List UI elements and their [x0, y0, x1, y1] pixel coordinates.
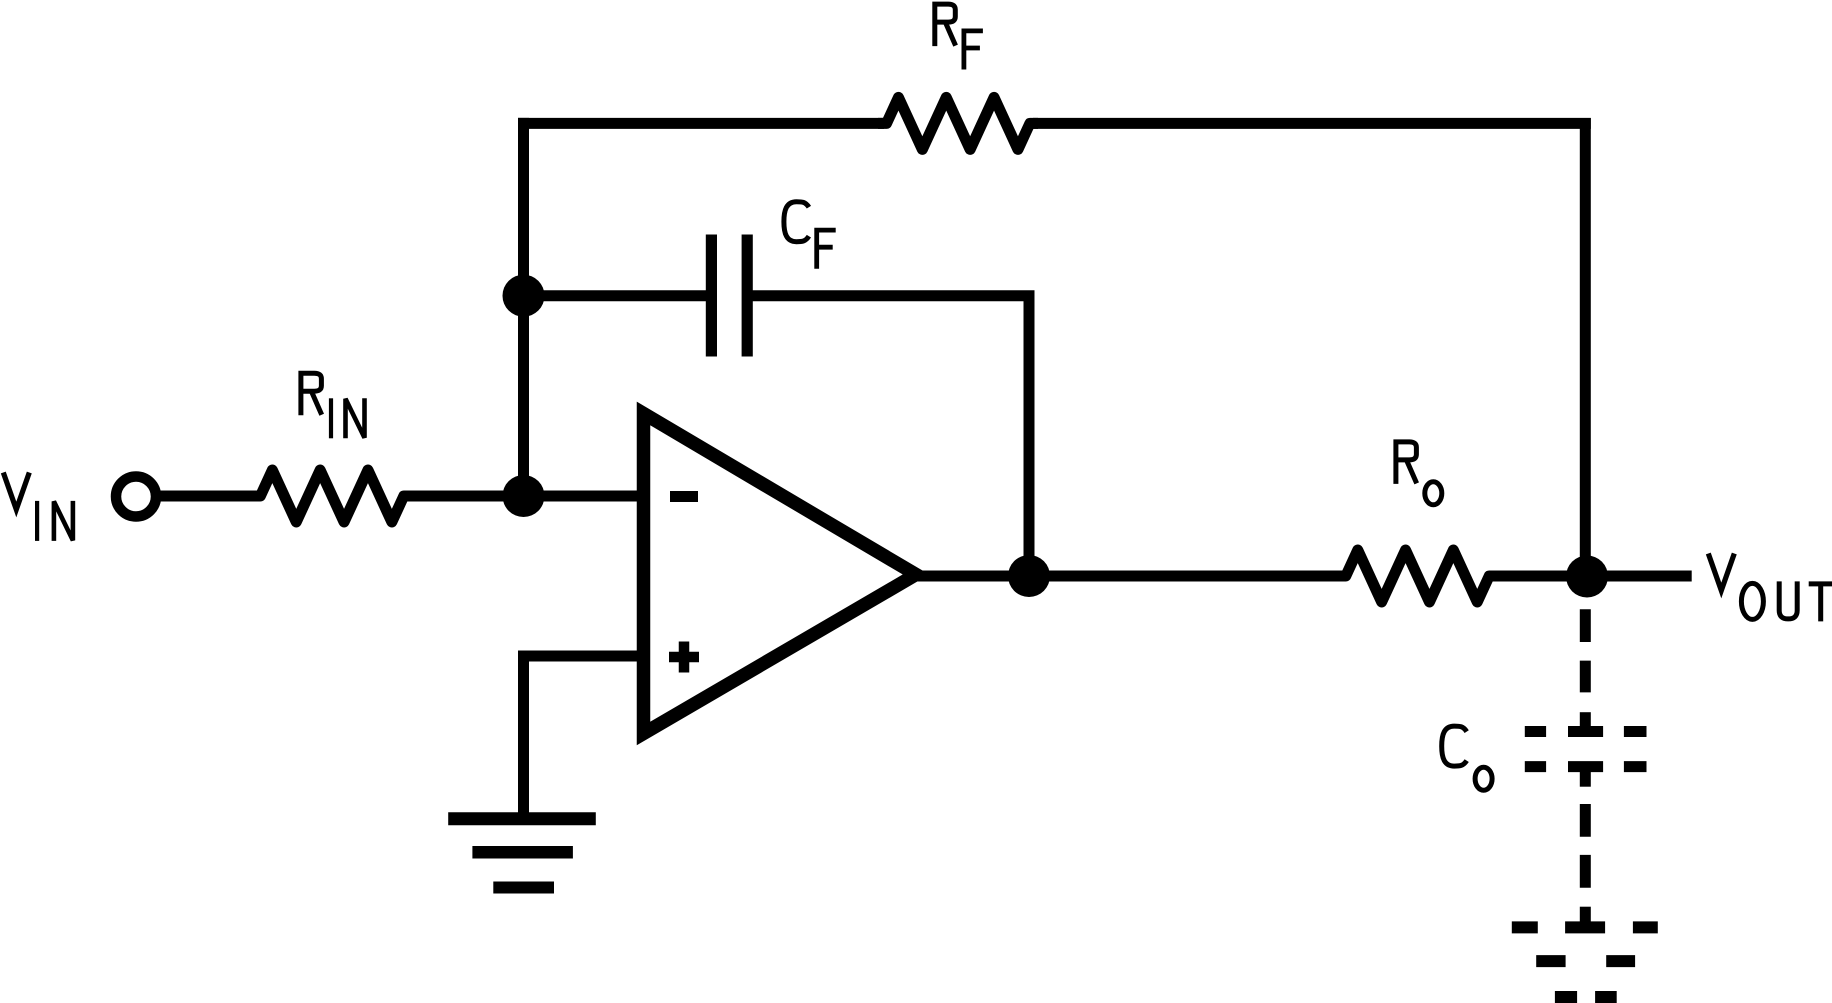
op-amp U1 [644, 414, 917, 734]
wire: top feedback left segment [518, 118, 884, 129]
wire: node B to CF left plate [524, 290, 708, 301]
label RIN [301, 373, 365, 438]
wire: top feedback right segment [1033, 118, 1591, 129]
label VIN [3, 473, 73, 541]
capacitor Co (dashed plates) [1525, 732, 1647, 767]
wire: VIN terminal to RIN [160, 491, 257, 502]
label Co [1442, 726, 1492, 790]
wire: noninverting down to ground [518, 656, 529, 818]
op-amp inverting pin (minus) [670, 491, 698, 502]
resistor Ro [1337, 550, 1497, 602]
node B (CF tap junction) [503, 275, 545, 317]
wire: right vertical feedback down to VOUT node [1580, 118, 1591, 577]
wire: RIN to op-amp inverting input [407, 491, 648, 502]
ground (dashed) [1512, 927, 1658, 997]
terminal VIN (open circle) [116, 477, 156, 517]
ground [448, 819, 596, 888]
label CF [784, 202, 836, 269]
resistor RF [878, 97, 1038, 149]
resistor RIN [252, 470, 412, 522]
node A (inverting input junction) [503, 475, 545, 517]
wire: CF right plate to output junction (horizontal + vertical) [752, 296, 1035, 576]
capacitor CF [711, 235, 747, 357]
wire: dashed Co down to dashed ground [1580, 772, 1591, 922]
op-amp noninverting pin (plus) [669, 642, 699, 673]
node output junction [1008, 555, 1050, 597]
wire: noninverting input [518, 651, 650, 662]
label VOUT [1708, 554, 1832, 622]
wire: dashed VOUT node down to Co [1580, 609, 1591, 727]
wire: Ro to VOUT [1492, 571, 1692, 582]
node VOUT junction [1566, 556, 1608, 598]
label Ro [1396, 442, 1442, 505]
label RF [935, 4, 983, 69]
wire: op-amp output to Ro [905, 571, 1344, 582]
wire: node A up to node B and top feedback [518, 118, 529, 496]
